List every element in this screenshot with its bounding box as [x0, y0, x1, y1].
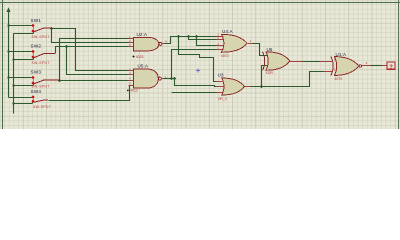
svg-text:SW-SPDT: SW-SPDT: [32, 61, 50, 65]
svg-text:U1:A: U1:A: [336, 52, 347, 57]
wire U3 output to U1 input 2: [251, 72, 324, 87]
svg-text:4070: 4070: [335, 77, 343, 81]
svg-text:SW-SPDT: SW-SPDT: [33, 105, 51, 109]
wire rail A to SW1 top throw: [9, 25, 33, 27]
NAND gate U5:A body: [127, 64, 167, 93]
wire rail B to SW2 bottom throw: [14, 58, 34, 60]
logic probe output: [382, 62, 396, 70]
rail B vertical: [13, 34, 15, 114]
U5 pin numbers: [129, 67, 167, 85]
wire U2 net tap to U4 input 4: [197, 37, 217, 46]
wire U5 output segment: [164, 78, 175, 80]
U5 value label 4012: [127, 89, 129, 91]
U4 pin numbers: [217, 33, 252, 51]
svg-text:4023: 4023: [136, 55, 144, 59]
switch SW3: [31, 70, 60, 89]
wire U6 output to U1 input 1: [303, 61, 320, 63]
wire SW2 net down to U5 input 2: [67, 47, 129, 75]
wire rail A to SW2 top throw: [9, 51, 33, 53]
wire U2 net tap to U3 input 1: [179, 37, 217, 82]
U1 input pin stubs: [320, 62, 371, 72]
svg-text:U2:A: U2:A: [137, 32, 148, 37]
sheet border right: [398, 0, 400, 129]
wire SW4 net to U3 input 3: [172, 92, 217, 94]
svg-text:U4:A: U4:A: [222, 29, 233, 34]
wire U5 net riser to U4 input 5: [172, 50, 217, 79]
wire rail A to SW3 top throw: [9, 77, 33, 79]
svg-text:U5:A: U5:A: [138, 64, 149, 69]
svg-text:SW3: SW3: [31, 70, 42, 75]
XOR gate U1:A body: [320, 52, 371, 81]
sheet border top: [0, 2, 400, 4]
U6 output pin stub: [290, 61, 303, 63]
wire SW1 pole node to U5 input 1: [52, 29, 129, 71]
U2 input pin stubs: [129, 39, 165, 47]
wire U2 output to U4 input 2: [165, 37, 217, 44]
svg-text:U3: U3: [218, 73, 224, 78]
U4 input pin stubs: [217, 37, 253, 50]
svg-text:SW4: SW4: [31, 89, 42, 94]
U5 input pin stubs: [129, 71, 164, 86]
svg-text:?: ?: [389, 64, 393, 70]
wire SW1 pole down to U2 input 2: [52, 29, 129, 43]
OR gate U3 body: [217, 73, 251, 102]
NAND gate U2:A body: [129, 32, 168, 59]
svg-text:SW-SPDT: SW-SPDT: [32, 35, 50, 39]
wire rail A corner to SW4 top throw: [9, 97, 33, 99]
wire SW2 pole up to U2 input 3: [56, 47, 129, 54]
U3 input pin stubs: [217, 82, 251, 93]
svg-text:4072: 4072: [221, 54, 229, 58]
power terminal arrow: [7, 8, 10, 13]
U1 pin numbers: [334, 57, 368, 71]
svg-text:OR_3: OR_3: [218, 97, 227, 101]
U2 value label 4023: [132, 55, 135, 58]
wire SW3 pole up to U2 input 1: [60, 39, 129, 81]
wire SW4 pole to riser: [49, 86, 130, 101]
wire U1 output to logic probe: [371, 65, 382, 67]
wire rail B to SW3 bottom throw: [14, 84, 34, 86]
U2 pin numbers: [129, 35, 167, 47]
blue origin marker: [196, 68, 200, 72]
junction dots: [7, 24, 263, 104]
wire rail B to SW1 bottom throw: [14, 32, 34, 34]
svg-text:U6: U6: [267, 47, 273, 52]
wire SW3 pole to U5 input 3: [60, 80, 129, 82]
wire rail B to SW4 bottom throw: [14, 102, 33, 104]
svg-text:SW1: SW1: [31, 18, 42, 23]
wire U3 net riser to U6 input 2: [262, 66, 269, 87]
svg-text:SW2: SW2: [31, 44, 42, 49]
OR gate U4:A body: [217, 29, 253, 58]
svg-text:4012: 4012: [130, 89, 138, 93]
power rail A vertical: [8, 13, 10, 98]
switch SW1: [31, 18, 52, 39]
wire U2 net tap to U4 input 3: [189, 37, 217, 40]
wire U4 output to U6 input 1: [253, 44, 269, 56]
svg-text:XOR: XOR: [266, 71, 274, 75]
wire U5 net down to U3 input 2: [175, 79, 217, 87]
switch SW2: [31, 44, 56, 65]
sheet background with grid: [0, 0, 400, 129]
switch SW4: [31, 89, 52, 109]
sheet border left: [2, 0, 4, 129]
XOR gate U6 body: [263, 47, 303, 75]
